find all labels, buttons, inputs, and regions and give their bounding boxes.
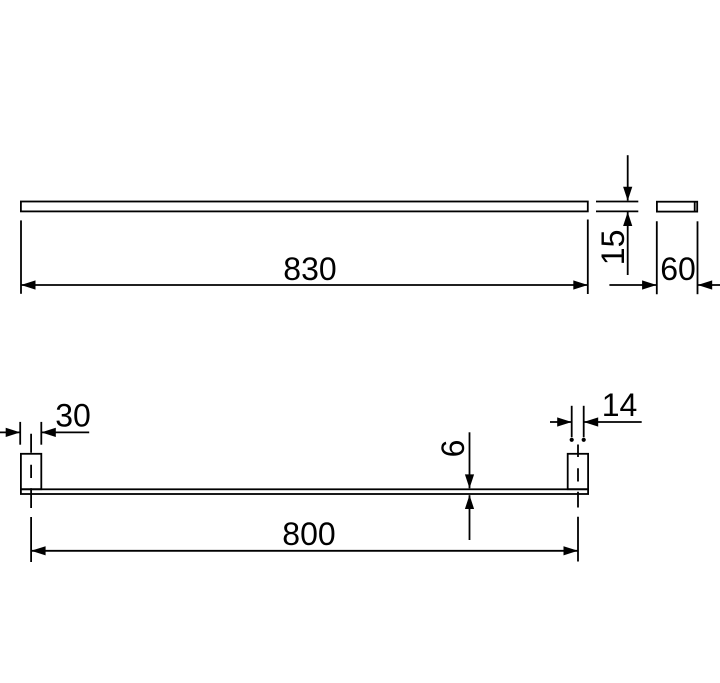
- dim 15 arrowhead upper: [623, 187, 632, 201]
- dim 60 leader line left: [609, 284, 656, 286]
- dim 830 arrowhead right: [573, 280, 588, 289]
- svg-text:15: 15: [595, 230, 631, 266]
- dim 6 arrowhead lower: [465, 495, 474, 509]
- dim 830 extension line left: [20, 220, 22, 293]
- dim 30 arrowhead left: [6, 428, 21, 437]
- dim 15 leader line upper: [627, 155, 629, 200]
- dim 6 leader line upper: [469, 432, 471, 488]
- end-cap inner edge line: [694, 202, 696, 212]
- dim 830 arrowhead left: [21, 280, 36, 289]
- dim 60 extension line right: [697, 221, 699, 294]
- dim 15 arrowhead lower: [623, 212, 632, 226]
- dim 14 dot left: [570, 438, 574, 442]
- left post outline: [21, 454, 41, 489]
- right post outline: [568, 454, 588, 489]
- dim 830 dimension line: [21, 284, 588, 286]
- dim 60 arrowhead left: [642, 280, 657, 289]
- dim 14 leader line right: [584, 421, 642, 423]
- end-cap side profile outline: [657, 202, 697, 212]
- svg-text:830: 830: [283, 251, 336, 287]
- dim 30 extension tick right: [40, 422, 42, 445]
- svg-text:60: 60: [660, 251, 696, 287]
- dim 14 leader line left: [550, 421, 572, 423]
- bar top-view outline: [21, 202, 588, 212]
- dim 6 arrowhead upper: [465, 474, 474, 488]
- dim 30 leader line right: [41, 431, 89, 433]
- dim 15 leader line lower: [627, 212, 629, 275]
- dim 800 dimension line: [31, 550, 578, 552]
- dim 14 extension line right: [583, 406, 585, 437]
- dim 15 extension line bottom: [596, 210, 638, 212]
- dim 60 extension line left: [656, 221, 658, 294]
- right post centerline: [577, 445, 579, 562]
- svg-text:800: 800: [282, 516, 335, 552]
- dim 830 extension line right: [587, 220, 589, 295]
- dim 14 arrowhead left: [557, 417, 572, 426]
- dim 14 dot right: [582, 438, 586, 442]
- dim 800 arrowhead right: [564, 546, 579, 555]
- dim 60 arrowhead right: [698, 280, 713, 289]
- bar front-view outline: [21, 489, 588, 494]
- dim 60 leader line right: [698, 284, 720, 286]
- left post centerline: [30, 434, 32, 562]
- dim 14 extension line left: [571, 406, 573, 437]
- dim 6 leader line lower: [469, 495, 471, 540]
- dim 30 leader line left: [0, 431, 20, 433]
- dim 15 extension line top: [596, 201, 638, 203]
- dim 30 extension tick left: [19, 422, 21, 445]
- svg-text:30: 30: [55, 398, 91, 434]
- dim 14 arrowhead right: [584, 417, 599, 426]
- dim 800 arrowhead left: [31, 546, 45, 555]
- svg-text:6: 6: [435, 440, 471, 458]
- svg-text:14: 14: [602, 387, 638, 423]
- dim 30 arrowhead right: [41, 428, 56, 437]
